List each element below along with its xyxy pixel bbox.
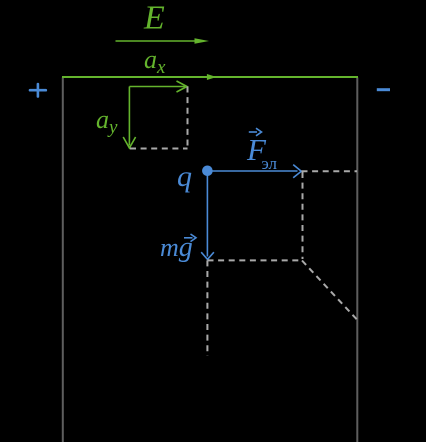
vector mg (gravity, down) [201,171,214,259]
dashed helper: vertical below F tip [302,172,304,259]
dashed helper: horizontal from F tip to right plate [302,170,358,172]
arrow E (field direction) [116,40,199,42]
dashed helper: horizontal at mg tip [208,259,302,261]
svg-text:mg: mg [160,232,193,263]
label + (left plate polarity) [30,84,46,97]
dashed helper: horizontal at a_y tip [130,148,188,150]
dashed helper: vertical at a_x tip [187,87,189,148]
dashed resultant diagonal to right plate [302,261,358,321]
label mg with vector arrow [160,232,196,263]
dashed helper: vertical below mg tip [206,260,208,356]
wire: top edge arrow (initial velocity line along top plate) [62,76,358,78]
svg-text:эл: эл [262,154,278,173]
vector a_y (vertical component arrow) [123,87,135,149]
label - (right plate polarity) [377,88,390,91]
charge q (dot) [202,166,213,177]
svg-text:E: E [143,0,165,37]
label F_el with vector arrow [246,128,277,173]
vector F_el (electric force, right) [207,165,301,178]
plate - (right plate) [356,78,358,442]
plate + (left plate) [62,78,64,442]
vector a_x (horizontal component arrow) [129,81,187,92]
svg-text:q: q [177,160,192,193]
